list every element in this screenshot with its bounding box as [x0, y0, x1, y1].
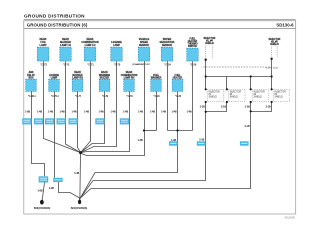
node J1	[143, 129, 145, 131]
wire B1 L1 to ground1	[42, 183, 44, 200]
wire T5 vehicle speed sensor down	[81, 61, 145, 156]
wire S2 shield drain down	[271, 59, 273, 90]
shield interconnect dashed	[203, 66, 271, 68]
connector label box on B2	[45, 118, 54, 124]
node S2b tie	[250, 75, 252, 77]
wire T4 license lamp down	[81, 61, 117, 153]
svg-text:⌜C-76-1: ⌜C-76-1	[51, 95, 60, 98]
svg-text:1-4B: 1-4B	[37, 111, 42, 113]
svg-text:⌜: ⌜	[201, 66, 202, 69]
wire injector pair2 shield bottom U	[251, 102, 272, 112]
svg-text:⌜C-26: ⌜C-26	[190, 63, 197, 66]
node inj3 bottom	[271, 101, 273, 103]
svg-text:1-4B: 1-4B	[172, 111, 177, 113]
wire T1 rear fog lamp down	[44, 61, 81, 153]
connector label box L2 joint	[53, 178, 62, 182]
wire junction J2 horizontal	[168, 130, 193, 132]
svg-text:B16(CHASSIS): B16(CHASSIS)	[34, 207, 51, 210]
svg-text:⌜C-24: ⌜C-24	[164, 63, 171, 66]
node inj1 bottom	[205, 101, 207, 103]
wire injector pair1 shield bottom U	[206, 102, 227, 112]
connector label box on T2	[57, 118, 66, 124]
wire T6 water separator sensor down	[167, 61, 169, 131]
svg-text:(CHASSIS)⌜C-22: (CHASSIS)⌜C-22	[133, 63, 151, 66]
svg-text:1-4B: 1-4B	[138, 111, 143, 113]
component shield INJECTOR #1 #4	[201, 38, 279, 70]
svg-text:2-1B: 2-1B	[245, 126, 250, 128]
node inj3 top	[271, 88, 273, 90]
node S1 top	[205, 59, 207, 61]
connector label box on T1	[34, 118, 43, 124]
svg-text:S210: S210	[273, 68, 279, 70]
header box	[24, 21, 296, 29]
node S1 tie	[205, 75, 207, 77]
svg-text:GROUND DISTRIBUTION: GROUND DISTRIBUTION	[24, 14, 85, 19]
component injector #2 shield box	[252, 89, 268, 101]
svg-text:1-4B: 1-4B	[74, 173, 79, 175]
wire B3 rear marker RH down	[78, 92, 81, 153]
svg-text:⌜C-72: ⌜C-72	[63, 63, 70, 66]
svg-text:1-4B: 1-4B	[49, 188, 54, 190]
node inj2 top	[250, 88, 252, 90]
component LICENSE LAMP 2	[49, 75, 60, 98]
connector label box on B3	[69, 118, 78, 124]
svg-text:1-6B: 1-6B	[25, 111, 30, 113]
wire junction J1 horizontal	[145, 130, 157, 132]
shield braid lines injector 1,4	[205, 46, 207, 59]
connector label box on B1	[22, 118, 31, 124]
svg-text:⌜2-1B: ⌜2-1B	[265, 67, 271, 70]
wire S2 branch to injector 2	[251, 77, 272, 90]
svg-text:2-1B: 2-1B	[266, 107, 271, 109]
node splice S	[79, 151, 82, 154]
wire B5 rear combination RH down	[81, 92, 129, 153]
svg-text:⌜C-06-1: ⌜C-06-1	[28, 95, 37, 98]
connector label box on S2b	[240, 141, 249, 145]
svg-text:1-6B: 1-6B	[38, 191, 43, 193]
svg-text:1-4B: 1-4B	[72, 111, 77, 113]
component injector #3 shield box	[273, 89, 290, 101]
connector label box on B5	[120, 118, 129, 124]
component REAR MARKER LAMP RH	[72, 71, 83, 98]
svg-text:2-1B: 2-1B	[245, 107, 250, 109]
wire S1 shield drain down	[205, 60, 207, 90]
node pair2 U junction	[250, 110, 252, 112]
node inj4 top	[226, 88, 228, 90]
svg-text:1-4B: 1-4B	[48, 111, 53, 113]
svg-text:1-4B: 1-4B	[84, 111, 89, 113]
component injector #1 shield box	[207, 89, 224, 101]
wire B2 L2 to ground2	[59, 182, 80, 198]
node S2 tie	[271, 75, 273, 77]
wire S1 branch to injector 4	[206, 77, 227, 90]
svg-text:⌜C-73: ⌜C-73	[40, 63, 47, 66]
svg-text:⌜C-75: ⌜C-75	[114, 63, 121, 66]
node inj4 bottom	[226, 101, 228, 103]
component REAR FOG LAMP	[37, 38, 49, 66]
svg-text:B22(CHASSIS): B22(CHASSIS)	[71, 207, 88, 210]
wire T2 rear marker LH down	[66, 61, 81, 153]
svg-text:⌜C-77: ⌜C-77	[75, 95, 82, 98]
component BACK WARNING BUZZER	[99, 71, 110, 98]
component injector #4 shield box	[229, 89, 246, 101]
component REAR COMBINATION LAMP RH	[121, 71, 138, 98]
ground B16 chassis	[34, 200, 51, 210]
svg-text:1-4B: 1-4B	[138, 140, 143, 142]
wire B6 fuel warmer down	[156, 92, 158, 131]
ground B22 chassis	[71, 198, 88, 210]
node inj1 top	[205, 88, 207, 90]
svg-text:1-4B: 1-4B	[99, 111, 104, 113]
component VEHICLE SPEED SENSOR	[133, 38, 151, 66]
svg-text:AEL054B: AEL054B	[284, 216, 295, 219]
component FUEL HEATER	[172, 75, 183, 98]
svg-text:1-4B: 1-4B	[60, 111, 65, 113]
svg-text:⌜C-78: ⌜C-78	[127, 95, 134, 98]
svg-text:2-1B: 2-1B	[200, 107, 205, 109]
node inj2 bottom	[250, 101, 252, 103]
svg-text:SD130-6: SD130-6	[276, 23, 294, 28]
component REAR COMBINATION LAMP LH	[81, 38, 99, 66]
wire B7 fuel heater down, continues to ground2	[80, 92, 177, 199]
component ABS RELAY BOX	[26, 71, 37, 98]
svg-text:1-4B: 1-4B	[161, 111, 166, 113]
wire B4 back buzzer down	[81, 92, 105, 153]
svg-text:1-4B: 1-4B	[111, 111, 116, 113]
svg-text:1-4B: 1-4B	[187, 111, 192, 113]
wire splice to ground2	[79, 153, 82, 198]
svg-text:⌜C-71: ⌜C-71	[87, 63, 94, 66]
connector label box on S1	[197, 141, 206, 145]
svg-text:1-4B: 1-4B	[150, 111, 155, 113]
component FUEL HEATER THERMO SWITCH	[187, 38, 199, 66]
diagram frame	[24, 29, 296, 214]
node S2 top	[270, 58, 272, 60]
svg-text:2-1B: 2-1B	[221, 107, 226, 109]
connector label box on B4	[95, 118, 104, 124]
svg-text:GROUND DISTRIBUTION (6): GROUND DISTRIBUTION (6)	[27, 23, 88, 28]
svg-text:⌜C-23: ⌜C-23	[154, 95, 161, 98]
component REAR MARKER LAMP LH	[60, 38, 72, 66]
component LICENSE LAMP	[111, 41, 123, 66]
svg-text:⌜C-79: ⌜C-79	[102, 95, 109, 98]
wire B2 license lamp to L2	[54, 92, 56, 178]
component WATER SEPARATOR SENSOR	[160, 38, 175, 66]
connector label box L1 joint	[39, 176, 49, 182]
wire S1 drain to ground2	[80, 112, 205, 199]
wire T7 fuel heater thermo switch down	[192, 61, 194, 130]
node J2	[176, 129, 178, 131]
component FUEL WARMER	[151, 75, 162, 98]
wire B1 relay box to L1	[32, 92, 45, 177]
svg-text:⌜C-25: ⌜C-25	[175, 95, 182, 98]
component shield INJECTOR #2 #3	[269, 39, 281, 46]
svg-text:VEHICLESPEEDSENSOR: VEHICLESPEEDSENSOR	[139, 38, 150, 47]
title rule	[24, 18, 296, 20]
wire shield tie S1-S2	[227, 76, 251, 78]
svg-text:1-4B: 1-4B	[123, 111, 128, 113]
connector label box on T6m	[169, 141, 178, 145]
node pair1 U junction	[205, 111, 207, 113]
wire S2 drain to ground2	[80, 112, 250, 199]
wire T3 rear combination LH down	[81, 61, 91, 153]
shield braid lines injector 2,3	[271, 47, 273, 58]
